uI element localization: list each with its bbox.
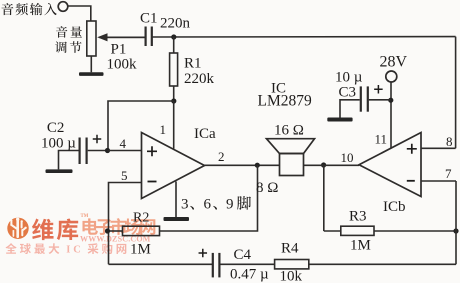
op-amp ICb — [359, 133, 421, 197]
svg-text:8: 8 — [446, 134, 453, 149]
wire 28V to pin 11 — [390, 82, 392, 149]
plus of C2 — [93, 135, 102, 144]
svg-text:10: 10 — [341, 150, 354, 165]
svg-text:10k: 10k — [280, 269, 303, 283]
ground under P1 — [79, 72, 104, 76]
resistor R2 — [108, 226, 160, 235]
bottom rail left — [109, 263, 213, 265]
wire P1 to ground — [90, 56, 92, 72]
svg-text:TM: TM — [81, 214, 89, 219]
label 3、6、9脚 — [181, 196, 251, 213]
svg-text:1M: 1M — [350, 238, 371, 254]
capacitor C1 — [99, 27, 152, 47]
wire pin 2 output — [205, 164, 280, 166]
node junction C1/R1 — [171, 34, 176, 39]
node junction R3 right — [453, 228, 458, 233]
wire pin 8 — [421, 147, 456, 149]
node junction speaker right — [321, 162, 326, 167]
wire right rail down — [455, 181, 457, 264]
svg-text:C2: C2 — [47, 120, 65, 136]
svg-text:R3: R3 — [349, 209, 367, 225]
svg-text:P1: P1 — [111, 42, 127, 58]
ground at C2 — [46, 169, 73, 173]
node junction speaker left — [255, 163, 260, 168]
wire right vertical to pin 8 — [455, 37, 457, 149]
svg-text:C3: C3 — [339, 85, 357, 101]
supply terminal 28V — [386, 71, 397, 82]
svg-text:R2: R2 — [133, 211, 149, 226]
ground at C3 — [327, 118, 352, 122]
svg-text:220k: 220k — [184, 71, 215, 87]
wire pin 4 — [108, 150, 142, 152]
svg-text:C: C — [73, 245, 81, 256]
svg-text:7: 7 — [445, 166, 452, 181]
watermark text 电子市场网 — [82, 218, 155, 235]
capacitor C4 — [213, 253, 275, 278]
node junction pin 4 — [105, 148, 110, 153]
svg-text:R4: R4 — [281, 241, 299, 257]
capacitor C2 — [59, 138, 108, 170]
plus of C4 — [199, 249, 208, 258]
label 音量调节 — [55, 26, 82, 53]
label 音频输入 — [1, 3, 56, 15]
wire bias node to pin 4 — [108, 101, 174, 151]
wire pin 5 — [109, 183, 142, 265]
input terminal 音频输入 — [58, 2, 68, 12]
wire pin 7 — [421, 180, 456, 182]
svg-text:4: 4 — [120, 136, 127, 151]
node junction R1 bottom — [171, 98, 176, 103]
svg-text:ICb: ICb — [383, 199, 406, 215]
wire input to P1 — [68, 6, 91, 21]
watermark logo circle — [7, 218, 28, 239]
op-amp ICa — [142, 133, 205, 199]
node junction 28V/C3 — [388, 98, 393, 103]
svg-text:2: 2 — [218, 149, 225, 164]
svg-text:1M: 1M — [130, 242, 151, 258]
wire speaker to pin 10 — [304, 164, 360, 166]
wire pin 1 — [173, 101, 175, 149]
svg-text:I: I — [66, 245, 70, 256]
plus of C3 — [374, 85, 383, 94]
svg-text:0.47 µ: 0.47 µ — [230, 267, 269, 283]
svg-text:8 Ω: 8 Ω — [256, 180, 278, 196]
svg-text:16 Ω: 16 Ω — [274, 123, 304, 139]
resistor R3 — [324, 226, 456, 235]
speaker — [267, 139, 315, 176]
svg-text:220n: 220n — [160, 16, 191, 32]
svg-text:100 µ: 100 µ — [41, 135, 76, 151]
watermark text 维库 — [32, 219, 78, 241]
svg-text:5: 5 — [121, 168, 128, 183]
resistor R4 — [275, 260, 456, 269]
svg-text:C4: C4 — [234, 247, 252, 263]
svg-text:9: 9 — [226, 197, 234, 213]
ground pin of ICa — [164, 182, 190, 222]
wire top rail to right — [152, 36, 455, 38]
svg-text:100k: 100k — [107, 57, 138, 73]
svg-text:3: 3 — [181, 197, 189, 213]
svg-text:R1: R1 — [184, 55, 202, 71]
wire R2 to speaker node — [160, 165, 258, 231]
svg-text:1: 1 — [160, 122, 167, 137]
wire speaker node down to R3 — [323, 165, 325, 231]
capacitor C3 — [340, 86, 391, 117]
svg-text:ICa: ICa — [194, 126, 216, 142]
potentiometer P1 — [87, 21, 145, 56]
resistor R1 — [170, 37, 178, 101]
watermark slogan 全球最大IC采购网 — [5, 243, 126, 255]
svg-text:6: 6 — [204, 197, 212, 213]
svg-text:11: 11 — [375, 132, 388, 147]
svg-text:10 µ: 10 µ — [335, 70, 363, 86]
node junction R2/pin5 — [105, 228, 110, 233]
svg-text:LM2879: LM2879 — [258, 92, 313, 109]
svg-text:C1: C1 — [140, 11, 158, 27]
svg-text:28V: 28V — [380, 53, 408, 70]
